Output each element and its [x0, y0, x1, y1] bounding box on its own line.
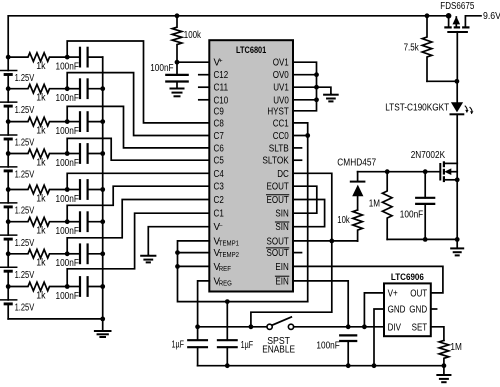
capacitor 100nF (cell 8 filter)	[56, 277, 103, 302]
wire: lower ground rail	[198, 365, 444, 367]
node: cap bus junction row 5	[100, 187, 105, 192]
capacitor 100nF (cell 4 filter)	[56, 144, 103, 169]
svg-text:1.25V: 1.25V	[15, 138, 35, 149]
capacitor 100nF (cell 3 filter)	[56, 112, 103, 137]
node: 100nF bottom rail junction	[423, 237, 428, 242]
pin label C1	[214, 209, 224, 220]
capacitor 100nF (V+ bypass)	[150, 62, 187, 81]
pin label C11	[214, 83, 229, 94]
node: FDS6675 drain rail junction	[446, 13, 452, 19]
node: cell 7 tap on stack	[6, 251, 11, 256]
node: stack bottom / bus junction	[100, 317, 105, 322]
capacitor 100nF (cell 2 filter)	[56, 79, 103, 104]
resistor 10k (SOUT drive)	[337, 210, 362, 241]
svg-text:CMHD457: CMHD457	[337, 157, 376, 168]
pin label UV1	[273, 83, 289, 94]
pin label EIN	[275, 262, 288, 273]
svg-text:100nF: 100nF	[56, 126, 79, 137]
svg-text:EOUT: EOUT	[267, 195, 289, 206]
node: cap bus junction row 6	[100, 219, 105, 224]
svg-text:1.25V: 1.25V	[15, 238, 35, 249]
svg-text:+: +	[219, 58, 223, 65]
pin label SOUT	[267, 236, 289, 247]
svg-text:HYST: HYST	[267, 106, 288, 117]
svg-text:SLTOK: SLTOK	[262, 156, 289, 167]
node label 9.6V	[483, 11, 500, 22]
pin label SET (LTC6906 right)	[412, 322, 428, 333]
capacitor 100nF (cell 1 filter)	[56, 48, 103, 73]
wire: tap4 to C5	[67, 138, 209, 160]
svg-text:100nF: 100nF	[56, 158, 79, 169]
svg-text:1k: 1k	[36, 126, 45, 137]
battery cell 5 1.25V	[0, 190, 35, 222]
svg-text:1k: 1k	[36, 61, 45, 72]
node: 100k/V+ rail junction	[175, 13, 180, 18]
svg-text:CC0: CC0	[273, 131, 290, 142]
capacitor 100nF (cell 5 filter)	[56, 180, 103, 205]
svg-text:100nF: 100nF	[56, 93, 79, 104]
node: CC0 bus junction	[305, 133, 310, 138]
node: gate/1M junction	[385, 169, 390, 174]
svg-text:C2: C2	[214, 195, 224, 206]
wire: C11 NC stub	[199, 86, 210, 88]
LED LTST-C190KGKT	[385, 81, 463, 163]
wire: tap8 to C1	[67, 213, 209, 286]
node: cell 3 tap on stack	[6, 119, 11, 124]
svg-text:OUT: OUT	[410, 288, 427, 299]
wire: threshold bus to ground	[317, 87, 331, 94]
node: filtered tap 3	[65, 119, 70, 124]
node: DC/SOUT junction	[329, 239, 334, 244]
svg-text:100nF: 100nF	[400, 210, 423, 221]
node: cap bus junction row 3	[100, 119, 105, 124]
node: filtered tap 1	[65, 55, 70, 60]
svg-text:1M: 1M	[450, 342, 462, 353]
svg-text:1k: 1k	[36, 193, 45, 204]
svg-text:100nF: 100nF	[316, 341, 339, 352]
wire: V- to ground	[148, 227, 209, 256]
wire: 2N7002K gate wire	[358, 171, 441, 173]
pin label C5	[214, 156, 225, 167]
node: OV0 bus junction	[314, 72, 319, 77]
svg-text:SET: SET	[412, 322, 428, 333]
svg-text:100nF: 100nF	[56, 226, 79, 237]
svg-text:100nF: 100nF	[56, 61, 79, 72]
wire: SET to 1M	[431, 327, 444, 341]
ground (V+ bypass cap)	[171, 82, 184, 97]
node: FDS6675 gate / LED junction	[455, 79, 460, 84]
node: 100nF bottom	[346, 363, 351, 368]
pin label C12	[214, 70, 229, 81]
resistor 1k (cell 8 filter)	[8, 282, 67, 301]
svg-text:GND: GND	[388, 305, 406, 316]
pin label GND (LTC6906)	[388, 305, 406, 316]
svg-text:SOUT: SOUT	[267, 248, 289, 259]
svg-text:10k: 10k	[337, 215, 349, 226]
svg-text:OV1: OV1	[273, 58, 289, 69]
svg-text:LTST-C190KGKT: LTST-C190KGKT	[385, 103, 449, 114]
svg-text:ENABLE: ENABLE	[262, 345, 295, 356]
transistor Q2 2N7002K	[440, 161, 457, 239]
wire: SLTOK NC stub	[293, 159, 302, 161]
pin label DC	[277, 169, 289, 180]
pin label OV1	[273, 58, 289, 69]
battery cell 8 1.25V	[0, 287, 35, 319]
svg-text:C1: C1	[214, 209, 224, 220]
node: cell 5 tap on stack	[6, 187, 11, 192]
ground (V- pin)	[141, 255, 155, 262]
svg-text:7.5k: 7.5k	[404, 42, 419, 53]
node: 2N7002K source/body tie	[455, 177, 460, 182]
wire: SOUT(inv) NC stub	[293, 252, 302, 254]
svg-text:100nF: 100nF	[56, 291, 79, 302]
wire: VREG down to enable row	[198, 281, 210, 340]
transistor Q2 2N7002K label	[411, 150, 446, 161]
wire: SOUT to 10k	[293, 240, 358, 242]
svg-text:1.25V: 1.25V	[15, 105, 35, 116]
transistor Q1 FDS6675	[444, 16, 469, 32]
ground (2N7002K source)	[451, 239, 463, 255]
node: V+ / 100k / 100nF junction	[175, 60, 180, 65]
node: cap bus junction row 4	[100, 151, 105, 156]
node: cap bus junction row 2	[100, 86, 105, 91]
node: filtered tap 7	[65, 251, 70, 256]
ground (battery stack bottom)	[95, 319, 111, 337]
capacitor 100nF (gate filter)	[400, 172, 434, 240]
node: filtered tap 8	[65, 284, 70, 289]
node: filtered tap 2	[65, 86, 70, 91]
battery cell 6 1.25V	[0, 222, 35, 254]
wire: tap3 to C6	[67, 106, 209, 147]
svg-text:C3: C3	[214, 182, 225, 193]
svg-text:–: –	[219, 222, 223, 229]
svg-text:EIN: EIN	[275, 262, 288, 273]
pin label C7	[214, 131, 224, 142]
capacitor 100nF (cell 7 filter)	[56, 245, 103, 270]
pin label V-	[214, 222, 223, 233]
node: gate/100nF junction	[423, 169, 428, 174]
wire: tap5 to C4	[67, 173, 209, 189]
pin label VREG	[214, 276, 232, 287]
pin label CC0	[273, 131, 290, 142]
wire: enable row right segment	[294, 326, 384, 328]
svg-text:1k: 1k	[36, 157, 45, 168]
svg-text:V+: V+	[388, 288, 398, 299]
ground (threshold setting bus)	[324, 94, 338, 101]
svg-text:1.25V: 1.25V	[15, 206, 35, 217]
wire: SLTB NC stub	[293, 147, 302, 149]
capacitor 100nF (cell 6 filter)	[56, 212, 103, 237]
svg-text:SIN: SIN	[275, 209, 288, 220]
diode CMHD457	[337, 157, 376, 210]
node: UV1 bus junction	[314, 85, 319, 90]
wire: 9.6V supply to FDS6675 source	[465, 16, 481, 26]
svg-text:1k: 1k	[36, 93, 45, 104]
resistor 1k (cell 5 filter)	[8, 185, 67, 204]
node: cap bus junction row 8	[100, 284, 105, 289]
svg-text:SLTB: SLTB	[269, 143, 289, 154]
resistor 1k (cell 6 filter)	[8, 217, 67, 236]
wire: 2N7002K source rail	[387, 238, 457, 240]
resistor 1M (gate pulldown)	[369, 172, 392, 240]
resistor 1k (cell 2 filter)	[8, 84, 67, 103]
pin label DIV (LTC6906)	[388, 322, 402, 333]
pin label C6	[214, 143, 225, 154]
wire: VTEMP1/VTEMP2/VREF bus	[178, 241, 308, 302]
pin label V+	[214, 58, 223, 69]
svg-text:1.25V: 1.25V	[15, 170, 35, 181]
svg-text:1µF: 1µF	[172, 339, 185, 350]
node: filtered tap 4	[65, 151, 70, 156]
svg-text:C12: C12	[214, 70, 229, 81]
svg-text:C4: C4	[214, 169, 225, 180]
wire: capacitor common bus	[102, 57, 104, 319]
svg-text:EIN: EIN	[275, 276, 288, 287]
wire: LTC6906 V+ from enable node	[364, 293, 384, 327]
pin label C8	[214, 118, 225, 129]
pin label OUT (LTC6906 right)	[410, 288, 427, 299]
pin label SOUT (inverted)	[266, 248, 288, 259]
svg-text:DC: DC	[277, 169, 289, 180]
resistor 1M (SET)	[439, 340, 462, 365]
wire: V+ pin to junction	[177, 61, 209, 63]
battery cell 2 1.25V	[0, 89, 35, 122]
node: VREG/enable row junction	[195, 324, 200, 329]
transistor Q1 FDS6675 label	[440, 1, 474, 12]
pin label SLTB	[269, 143, 289, 154]
capacitor 1uF (VREF bypass)	[218, 302, 253, 366]
svg-text:TEMP2: TEMP2	[219, 252, 239, 259]
pin label VTEMP1	[214, 236, 240, 247]
op-amp U2 LTC6906 body	[384, 272, 431, 336]
svg-text:100nF: 100nF	[150, 63, 173, 74]
svg-text:1.25V: 1.25V	[15, 73, 35, 84]
node: 7.5k rail junction	[425, 13, 430, 18]
resistor 1k (cell 4 filter)	[8, 149, 67, 168]
wire: tap1 to C8	[67, 41, 209, 123]
pin label UV0	[273, 95, 289, 106]
svg-text:100nF: 100nF	[56, 194, 79, 205]
pin label GND (LTC6906 right)	[409, 305, 427, 316]
svg-text:FDS6675: FDS6675	[440, 1, 474, 12]
svg-text:100nF: 100nF	[56, 258, 79, 269]
wire: C12 NC stub	[199, 74, 210, 76]
wire: LTC6906 GND right NC stub	[431, 308, 437, 310]
pin label C2	[214, 195, 224, 206]
resistor 1k (cell 3 filter)	[8, 117, 67, 136]
svg-text:2N7002K: 2N7002K	[411, 150, 446, 161]
svg-text:EOUT: EOUT	[267, 182, 289, 193]
svg-text:C7: C7	[214, 131, 224, 142]
battery cell 1 1.25V	[0, 57, 35, 89]
svg-text:C11: C11	[214, 83, 229, 94]
node: cell 2 tap on stack	[6, 86, 11, 91]
wire: enable row left segment	[198, 326, 267, 328]
LED light arrows	[465, 106, 474, 114]
capacitor 1uF (VREG bypass)	[172, 339, 207, 365]
node: VREF bus junction	[175, 264, 180, 269]
pin label HYST	[267, 106, 288, 117]
svg-text:C8: C8	[214, 118, 225, 129]
node: cap bus junction row 7	[100, 251, 105, 256]
svg-text:1k: 1k	[36, 258, 45, 269]
node: 1M bottom / ground	[442, 363, 447, 368]
node: cell 4 tap on stack	[6, 151, 11, 156]
svg-text:1µF: 1µF	[241, 340, 254, 351]
battery cell 7 1.25V	[0, 254, 35, 287]
pin label EOUT (inverted)	[266, 195, 288, 206]
wire: EOUT to SIN loopback	[293, 186, 317, 213]
pin label EOUT	[267, 182, 289, 193]
pin label V+ (LTC6906)	[388, 288, 398, 299]
svg-text:9.6V: 9.6V	[483, 11, 500, 22]
svg-text:REF: REF	[219, 266, 231, 273]
ground (lower rail)	[437, 366, 450, 383]
svg-text:LTC6906: LTC6906	[391, 272, 424, 283]
capacitor 100nF (enable filter)	[316, 335, 356, 365]
pin label SLTOK	[262, 156, 289, 167]
node: LTC6906 GND bottom	[372, 363, 377, 368]
svg-text:1.25V: 1.25V	[15, 303, 35, 314]
node: cell 6 tap on stack	[6, 219, 11, 224]
resistor 1k (cell 7 filter)	[8, 250, 67, 269]
wire: tap7 to C2	[67, 200, 209, 254]
svg-text:UV0: UV0	[273, 95, 289, 106]
svg-text:OV0: OV0	[273, 70, 290, 81]
svg-text:C10: C10	[214, 95, 229, 106]
svg-text:UV1: UV1	[273, 83, 289, 94]
svg-text:100k: 100k	[184, 30, 201, 41]
wire: DC to SOUT chain	[251, 173, 332, 326]
node: cell 1 tap on stack	[6, 55, 11, 60]
resistor 100k (HYST/V+ pullup)	[172, 16, 201, 62]
pin label C10	[214, 95, 229, 106]
wire: EIN(inv) to enable node	[293, 281, 348, 327]
wire: OV1/OV0/UV1/UV0/HYST common bus	[293, 62, 317, 111]
pin label C3	[214, 182, 225, 193]
pin label SIN (inverted)	[275, 222, 288, 233]
svg-text:C5: C5	[214, 156, 225, 167]
wire: LTC6906 GND to rail	[374, 309, 384, 366]
resistor 1k (cell 1 filter)	[8, 53, 67, 72]
node: LTC6906 V+ junction	[362, 324, 367, 329]
svg-text:REG: REG	[219, 280, 232, 287]
resistor 7.5k (gate pullup)	[404, 16, 432, 82]
svg-text:C9: C9	[214, 106, 224, 117]
op-amp U1 LTC6801 body	[209, 40, 293, 291]
svg-text:1.25V: 1.25V	[15, 270, 35, 281]
node: VREF bypass cap junction	[225, 299, 230, 304]
wire: EOUT(inv) to SIN(inv) loopback	[293, 200, 325, 227]
svg-text:1M: 1M	[369, 199, 380, 210]
node: filtered tap 5	[65, 187, 70, 192]
svg-text:SOUT: SOUT	[267, 236, 289, 247]
wire: CC1/CC0 bus down to VREF node line	[293, 123, 308, 302]
svg-text:GND: GND	[409, 305, 427, 316]
pin label CC1	[273, 118, 289, 129]
svg-text:1k: 1k	[36, 226, 45, 237]
wire: battery stack top to V+ supply rail	[8, 16, 448, 57]
battery cell 4 1.25V	[0, 154, 35, 190]
wire: 7.5k to gate node	[427, 80, 457, 82]
switch SPST ENABLE	[262, 317, 295, 356]
svg-text:1k: 1k	[36, 290, 45, 301]
node: source/ground junction	[455, 237, 460, 242]
svg-text:SIN: SIN	[275, 222, 288, 233]
node: VTEMP2 bus junction	[175, 250, 180, 255]
pin label SIN	[275, 209, 288, 220]
svg-text:C6: C6	[214, 143, 225, 154]
wire: tap6 to C3	[67, 186, 209, 222]
pin label VTEMP2	[214, 248, 240, 259]
wire: tap2 to C7	[67, 73, 209, 136]
wire: FDS6675 gate lead	[456, 32, 458, 82]
node: VREF cap bottom	[225, 363, 230, 368]
node: UV0 bus junction	[314, 97, 319, 102]
pin label C9	[214, 106, 224, 117]
svg-text:LTC6801: LTC6801	[236, 45, 267, 56]
node: 100nF enable junction	[346, 324, 351, 329]
pin label VREF	[214, 262, 231, 273]
pin label OV0	[273, 70, 290, 81]
wire: C10 NC stub	[199, 99, 210, 101]
node: filtered tap 6	[65, 219, 70, 224]
svg-text:CC1: CC1	[273, 118, 289, 129]
node: cell 8 tap on stack	[6, 284, 11, 289]
pin label C4	[214, 169, 225, 180]
svg-text:TEMP1: TEMP1	[219, 240, 239, 247]
wire: stack bottom return	[8, 318, 103, 320]
pin label EIN (inverted)	[275, 276, 288, 287]
node: enable row left junction	[249, 324, 254, 329]
battery cell 3 1.25V	[0, 122, 35, 154]
svg-text:DIV: DIV	[388, 322, 402, 333]
wire: EIN from LTC6906 OUT	[293, 266, 443, 293]
